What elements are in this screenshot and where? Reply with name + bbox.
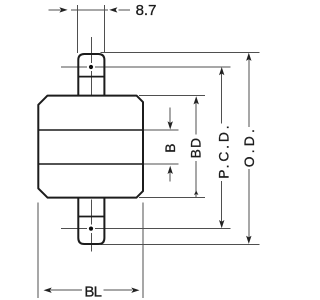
svg-text:BL: BL xyxy=(84,283,101,300)
svg-text:B: B xyxy=(163,143,178,152)
svg-text:P.C.D.: P.C.D. xyxy=(216,122,231,178)
svg-text:O.D.: O.D. xyxy=(242,126,257,167)
svg-text:8.7: 8.7 xyxy=(136,2,157,19)
svg-text:BD: BD xyxy=(189,137,204,159)
